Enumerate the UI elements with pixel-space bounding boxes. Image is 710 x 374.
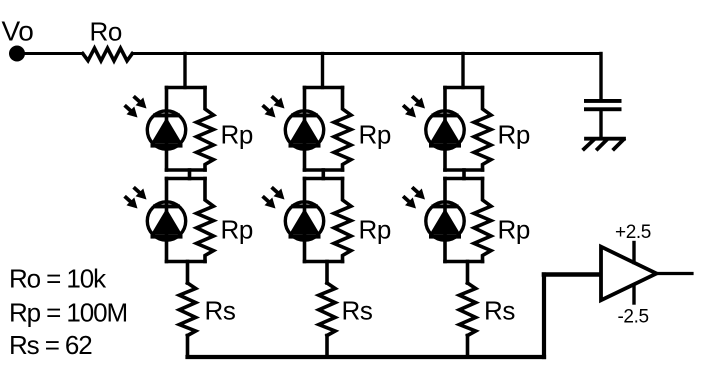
svg-text:Vo: Vo bbox=[2, 16, 34, 47]
svg-text:Ro: Ro bbox=[90, 17, 122, 47]
svg-text:Rp: Rp bbox=[359, 120, 391, 150]
svg-text:-2.5: -2.5 bbox=[618, 306, 649, 327]
svg-text:Rs: Rs bbox=[205, 296, 236, 326]
svg-text:Rs: Rs bbox=[342, 296, 373, 326]
svg-text:Ro = 10k: Ro = 10k bbox=[9, 264, 107, 294]
svg-text:Rp: Rp bbox=[498, 215, 530, 245]
svg-text:Rs = 62: Rs = 62 bbox=[9, 330, 92, 360]
svg-text:Rp: Rp bbox=[221, 215, 253, 245]
svg-text:Rp: Rp bbox=[498, 120, 530, 150]
svg-text:Rs: Rs bbox=[484, 296, 515, 326]
svg-text:Rp: Rp bbox=[359, 215, 391, 245]
svg-text:+2.5: +2.5 bbox=[615, 222, 651, 243]
svg-text:Rp: Rp bbox=[221, 120, 253, 150]
svg-text:Rp = 100M: Rp = 100M bbox=[9, 298, 127, 328]
